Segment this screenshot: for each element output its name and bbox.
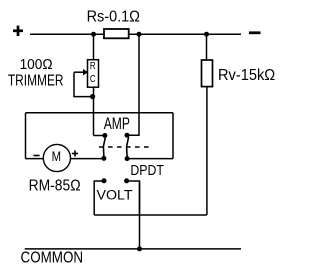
node: junction on common rail: [137, 246, 142, 251]
svg-text:100Ω: 100Ω: [20, 57, 53, 73]
node: pole 1 bottom contact: [101, 156, 106, 161]
node: junction dot top of Rv: [204, 32, 209, 37]
wire meter loop rectangle: top edge: [26, 112, 174, 114]
svg-text:TRIMMER: TRIMMER: [8, 73, 64, 90]
meter plus mark: [72, 150, 78, 156]
trimmer resistor body: [88, 60, 99, 87]
switch DPDT pole 2 blade: [127, 137, 129, 158]
wire meter right lead to pole 1 bottom: [70, 158, 103, 160]
node: pole 2 bottom contact: [125, 156, 130, 161]
svg-text:AMP: AMP: [104, 115, 130, 133]
wire pole 2 bottom to right edge: [127, 158, 173, 160]
wire meter loop: left edge: [25, 113, 27, 159]
wire common rail: [25, 248, 241, 250]
node: VOLT terminal right: [124, 178, 129, 183]
wire Rv bottom: [206, 87, 208, 215]
wire meter left lead: [26, 158, 44, 160]
wire VOLT box bottom to Rv: [94, 214, 207, 216]
trimmer wiper arrow: [74, 71, 83, 73]
terminal - (battery negative): [249, 31, 261, 34]
svg-text:C: C: [90, 74, 96, 85]
terminal + (battery positive): [13, 26, 23, 36]
wire jog to switch pole 1 top: [94, 135, 105, 137]
wire VOLT right edge down to common: [139, 181, 141, 249]
svg-text:DPDT: DPDT: [130, 162, 164, 179]
node: junction dot left of Rs: [91, 32, 96, 37]
svg-text:M: M: [52, 149, 61, 165]
meter M (moving coil): [43, 144, 70, 171]
resistor Rs: [104, 29, 129, 38]
node: junction dot below trimmer: [90, 94, 95, 99]
wire meter loop: right edge: [172, 113, 174, 159]
svg-text:COMMON: COMMON: [21, 249, 84, 266]
svg-text:Rs-0.1Ω: Rs-0.1Ω: [87, 8, 141, 25]
node: pole 1 top contact: [102, 133, 107, 138]
switch DPDT pole 1 blade: [103, 137, 105, 158]
svg-text:VOLT: VOLT: [97, 187, 133, 202]
resistor Rv: [206, 34, 208, 60]
switch mechanical link (dashed): [99, 146, 149, 148]
node: junction dot right of Rs: [137, 32, 142, 37]
svg-text:RM-85Ω: RM-85Ω: [29, 177, 81, 194]
wire right feeder from Rs: [127, 34, 139, 135]
wire trimmer bottom stub / left feeder lower: [93, 87, 95, 135]
svg-text:Rv-15kΩ: Rv-15kΩ: [218, 67, 275, 84]
svg-text:R: R: [90, 61, 96, 72]
node: pole 2 top contact: [125, 133, 130, 138]
wire wiper loop: [74, 72, 94, 96]
wire top rail: [30, 33, 241, 35]
voltmeter terminal box VOLT: [94, 181, 104, 215]
meter minus mark: [34, 155, 40, 157]
node: VOLT terminal left: [102, 178, 107, 183]
wire left feeder upper (to trimmer): [93, 34, 95, 60]
